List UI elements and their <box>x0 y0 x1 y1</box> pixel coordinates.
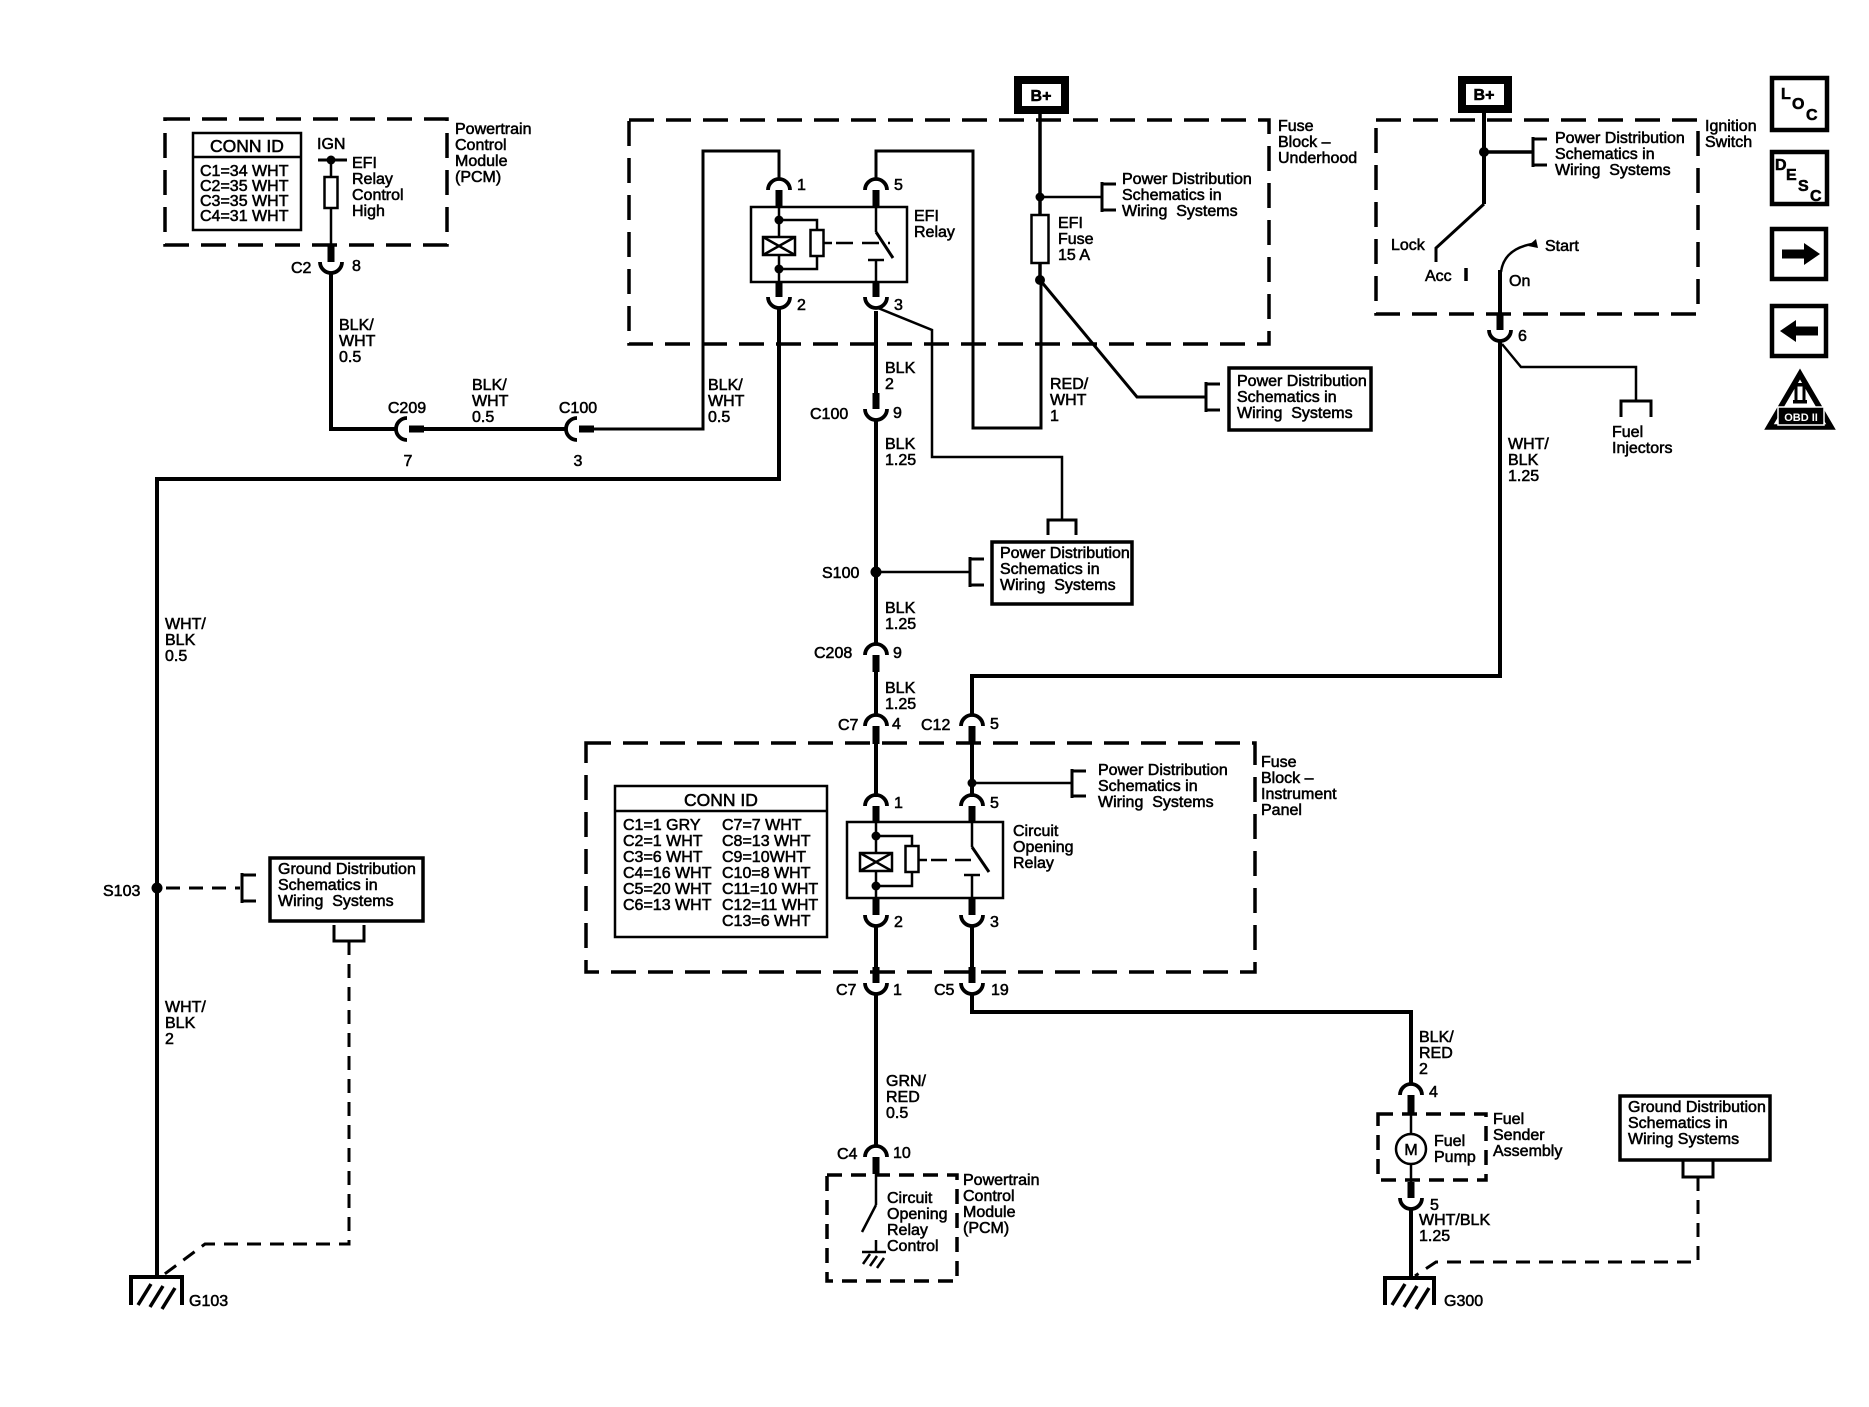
svg-text:RED: RED <box>886 1089 920 1106</box>
svg-text:Schematics in: Schematics in <box>1628 1115 1728 1132</box>
svg-text:WHT/BLK: WHT/BLK <box>1419 1212 1490 1229</box>
wire C2-8 down and right (BLK/WHT 0.5) <box>331 273 396 429</box>
svg-text:Ground Distribution: Ground Distribution <box>278 861 416 878</box>
svg-text:3: 3 <box>894 297 903 314</box>
svg-text:Fuel: Fuel <box>1612 424 1643 441</box>
Circuit Opening Relay box <box>847 822 1003 898</box>
ground G103 <box>129 1277 228 1310</box>
svg-text:C11=10 WHT: C11=10 WHT <box>722 881 818 898</box>
svg-text:Wiring Systems: Wiring Systems <box>1122 203 1238 220</box>
svg-text:1.25: 1.25 <box>1419 1228 1450 1245</box>
svg-text:BLK: BLK <box>885 600 916 617</box>
svg-text:1: 1 <box>894 795 903 812</box>
svg-text:0.5: 0.5 <box>886 1105 908 1122</box>
svg-text:Module: Module <box>455 153 508 170</box>
svg-text:O: O <box>1792 96 1804 113</box>
wire C100-3 up to EFI relay pin 1 <box>594 151 779 429</box>
svg-text:Power Distribution: Power Distribution <box>1098 762 1228 779</box>
svg-text:Power Distribution: Power Distribution <box>1555 130 1685 147</box>
svg-text:C8=13 WHT: C8=13 WHT <box>722 833 811 850</box>
svg-text:Ground Distribution: Ground Distribution <box>1628 1099 1766 1116</box>
svg-text:7: 7 <box>404 453 413 470</box>
svg-text:Wiring Systems: Wiring Systems <box>1628 1131 1739 1148</box>
svg-text:0.5: 0.5 <box>165 648 187 665</box>
svg-text:(PCM): (PCM) <box>455 169 501 186</box>
label Powertrain Control Module (PCM) <box>455 121 531 186</box>
icon arrow right <box>1772 229 1826 279</box>
label BLK 1.25 <box>885 680 916 713</box>
svg-text:Wiring Systems: Wiring Systems <box>1555 162 1671 179</box>
svg-text:RED/: RED/ <box>1050 376 1089 393</box>
wire relay pin 3 to C5-19 <box>970 926 974 967</box>
wire C209 to C100 <box>424 427 566 431</box>
wire pin 3 diagonal to S100 ref box <box>878 308 1076 535</box>
junction at EFI fuse output <box>1035 275 1045 285</box>
bracket below Ground Distribution box (S103) <box>334 925 364 941</box>
svg-text:BLK/: BLK/ <box>339 317 374 334</box>
svg-text:Fuel: Fuel <box>1434 1133 1465 1150</box>
svg-text:Pump: Pump <box>1434 1149 1476 1166</box>
svg-text:EFI: EFI <box>352 155 377 172</box>
svg-text:BLK: BLK <box>1508 452 1539 469</box>
svg-text:C209: C209 <box>388 400 426 417</box>
svg-text:C4=31 WHT: C4=31 WHT <box>200 208 289 225</box>
svg-text:10: 10 <box>893 1145 911 1162</box>
EFI relay pin 3 connector <box>865 281 903 314</box>
EFI relay coil resistor <box>779 220 824 269</box>
PCM dashed box (bottom) <box>827 1175 957 1281</box>
label Lock <box>1391 237 1426 254</box>
svg-text:Opening: Opening <box>887 1206 948 1223</box>
svg-text:C100: C100 <box>810 406 848 423</box>
wire pin 6 down and left to C12-5 (WHT/BLK 1.25) <box>972 341 1500 715</box>
connector fuel sender pin 4 <box>1400 1084 1438 1113</box>
svg-text:Powertrain: Powertrain <box>963 1172 1039 1189</box>
svg-text:5: 5 <box>894 177 903 194</box>
connector C12 pin 5 <box>921 715 999 744</box>
svg-text:CONN ID: CONN ID <box>210 136 284 156</box>
svg-text:WHT/: WHT/ <box>1508 436 1549 453</box>
connector C208 pin 9 <box>814 644 902 672</box>
svg-text:High: High <box>352 203 385 220</box>
svg-text:Lock: Lock <box>1391 237 1426 254</box>
label RED/WHT 1 <box>1050 376 1089 425</box>
dashed ref wire from S103 <box>166 873 256 903</box>
Circuit Opening Relay coil <box>860 822 892 898</box>
svg-text:2: 2 <box>885 376 894 393</box>
connector ignition pin 6 <box>1489 314 1527 345</box>
svg-text:BLK: BLK <box>885 436 916 453</box>
svg-text:Control: Control <box>455 137 507 154</box>
svg-text:Relay: Relay <box>1013 855 1054 872</box>
svg-text:2: 2 <box>165 1031 174 1048</box>
EFI relay pin 1 connector <box>768 177 806 207</box>
svg-text:C7: C7 <box>836 982 857 999</box>
svg-text:C: C <box>1806 107 1818 124</box>
label BLK 1.25 <box>885 436 916 469</box>
svg-text:Assembly: Assembly <box>1493 1143 1562 1160</box>
svg-text:3: 3 <box>990 914 999 931</box>
fuse EFI Fuse 15 A <box>1032 215 1094 280</box>
svg-text:0.5: 0.5 <box>339 349 361 366</box>
svg-text:C7=7 WHT: C7=7 WHT <box>722 817 802 834</box>
svg-text:C5: C5 <box>934 982 955 999</box>
svg-text:Acc: Acc <box>1425 268 1452 285</box>
icon OBD II <box>1769 374 1831 428</box>
svg-text:2: 2 <box>797 297 806 314</box>
off-page ref wire (ignition) <box>1484 137 1547 167</box>
label Powertrain Control Module (PCM) bottom <box>963 1172 1039 1237</box>
wire C5-19 to fuel pump (BLK/RED 2) <box>972 994 1411 1084</box>
connector C7 pin 1 <box>836 967 902 999</box>
svg-text:Schematics in: Schematics in <box>278 877 378 894</box>
label BLK/RED 2 <box>1419 1029 1454 1078</box>
svg-text:Circuit: Circuit <box>887 1190 933 1207</box>
svg-text:WHT/: WHT/ <box>165 999 206 1016</box>
svg-text:EFI: EFI <box>914 208 939 225</box>
svg-text:9: 9 <box>893 405 902 422</box>
connector C2 pin 8 <box>291 246 361 277</box>
label BLK/WHT 0.5 (pin2 wire) <box>708 377 745 426</box>
svg-text:5: 5 <box>990 795 999 812</box>
wire fuel pump to G300 (WHT/BLK 1.25) <box>1409 1209 1413 1277</box>
Fuse Block Instrument Panel dashed box <box>586 743 1255 972</box>
svg-text:8: 8 <box>352 258 361 275</box>
off-page ref wire Power Distribution (above fuse) <box>1040 182 1116 212</box>
connector C5 pin 19 <box>934 967 1009 999</box>
svg-text:Powertrain: Powertrain <box>455 121 531 138</box>
wire On position down to pin 6 <box>1498 270 1502 315</box>
svg-text:Panel: Panel <box>1261 802 1302 819</box>
svg-text:Wiring Systems: Wiring Systems <box>1098 794 1214 811</box>
svg-text:GRN/: GRN/ <box>886 1073 927 1090</box>
EFI relay pin 5 connector <box>865 177 903 207</box>
svg-text:1.25: 1.25 <box>885 616 916 633</box>
wire C7-4 to relay pin 1 <box>874 744 878 797</box>
svg-text:Relay: Relay <box>887 1222 928 1239</box>
Ignition Switch dashed box <box>1376 120 1698 314</box>
svg-text:C2: C2 <box>291 260 312 277</box>
svg-text:2: 2 <box>894 914 903 931</box>
label Power Distribution Schematics in Wiring Systems (underhood) <box>1122 171 1252 220</box>
svg-text:IGN: IGN <box>317 136 345 153</box>
label WHT/BLK 1.25 <box>1419 1212 1490 1245</box>
svg-text:Wiring Systems: Wiring Systems <box>1000 577 1116 594</box>
svg-text:C100: C100 <box>559 400 597 417</box>
svg-text:Switch: Switch <box>1705 134 1752 151</box>
connector C209 pin 7 <box>388 400 426 470</box>
svg-text:Sender: Sender <box>1493 1127 1545 1144</box>
svg-text:3: 3 <box>574 453 583 470</box>
svg-text:G300: G300 <box>1444 1293 1483 1310</box>
svg-text:Underhood: Underhood <box>1278 150 1357 167</box>
connector C7 pin 4 <box>838 715 901 744</box>
svg-text:Schematics in: Schematics in <box>1237 389 1337 406</box>
wire relay pin 2 to C7-1 <box>874 926 878 967</box>
label Circuit Opening Relay Control <box>887 1190 948 1255</box>
svg-text:WHT: WHT <box>472 393 509 410</box>
label Start <box>1545 238 1579 255</box>
label BLK/WHT 0.5 (C209-C100) <box>472 377 509 426</box>
svg-text:Schematics in: Schematics in <box>1000 561 1100 578</box>
boxed ref Power Distribution Schematics in Wiring Systems (right of fuse) <box>1229 368 1371 430</box>
svg-text:15 A: 15 A <box>1058 247 1090 264</box>
svg-text:BLK/: BLK/ <box>1419 1029 1454 1046</box>
svg-text:Wiring Systems: Wiring Systems <box>1237 405 1353 422</box>
svg-text:WHT/: WHT/ <box>165 616 206 633</box>
svg-text:WHT: WHT <box>339 333 376 350</box>
svg-text:C208: C208 <box>814 645 852 662</box>
svg-text:BLK: BLK <box>165 632 196 649</box>
label On <box>1509 273 1530 290</box>
icon DESC <box>1772 152 1827 205</box>
svg-text:C13=6 WHT: C13=6 WHT <box>722 913 811 930</box>
boxed ref Power Distribution Schematics in Wiring Systems (S100) <box>992 542 1132 604</box>
label Fuel Pump <box>1434 1133 1476 1166</box>
Circuit Opening Relay pin 5 connector <box>961 795 999 822</box>
svg-text:Schematics in: Schematics in <box>1122 187 1222 204</box>
EFI relay box <box>751 207 907 282</box>
Circuit Opening Relay switch <box>964 822 989 898</box>
EFI relay switch <box>868 207 893 282</box>
svg-text:RED: RED <box>1419 1045 1453 1062</box>
svg-text:C10=8 WHT: C10=8 WHT <box>722 865 811 882</box>
svg-text:BLK: BLK <box>165 1015 196 1032</box>
connector C4 pin 10 <box>837 1145 911 1174</box>
label Fuse Block - Instrument Panel <box>1261 754 1337 819</box>
Fuel Sender Assembly dashed box <box>1378 1114 1486 1180</box>
svg-text:Circuit: Circuit <box>1013 823 1059 840</box>
svg-text:WHT: WHT <box>708 393 745 410</box>
label GRN/RED 0.5 <box>886 1073 927 1122</box>
svg-text:Schematics in: Schematics in <box>1098 778 1198 795</box>
svg-text:Module: Module <box>963 1204 1016 1221</box>
motor M fuel pump <box>1396 1113 1426 1182</box>
EFI relay coil <box>763 207 795 282</box>
ignition switch wiper to Lock <box>1436 152 1484 262</box>
svg-text:D: D <box>1775 157 1787 174</box>
svg-text:C4=16 WHT: C4=16 WHT <box>623 865 712 882</box>
svg-text:C: C <box>1810 188 1822 205</box>
svg-text:C3=6 WHT: C3=6 WHT <box>623 849 703 866</box>
svg-text:4: 4 <box>892 716 901 733</box>
svg-text:1: 1 <box>797 177 806 194</box>
label BLK/WHT 0.5 (C2 wire) <box>339 317 376 366</box>
svg-text:0.5: 0.5 <box>708 409 730 426</box>
wire B+ to EFI fuse <box>1038 114 1042 215</box>
splice S103 <box>103 883 163 901</box>
Circuit Opening Relay actuation dashed link <box>919 859 973 862</box>
svg-text:C4: C4 <box>837 1146 858 1163</box>
svg-text:L: L <box>1781 86 1791 103</box>
label Ignition Switch <box>1705 118 1757 151</box>
switch Circuit Opening Relay Control driver <box>862 1174 876 1232</box>
svg-text:S: S <box>1798 178 1809 195</box>
Circuit Opening Relay pin 3 connector <box>961 899 999 931</box>
svg-text:C1=1 GRY: C1=1 GRY <box>623 817 701 834</box>
boxed ref Ground Distribution Schematics in Wiring Systems (right) <box>1620 1096 1770 1160</box>
svg-text:G103: G103 <box>189 1293 228 1310</box>
icon arrow left <box>1772 306 1826 356</box>
label Power Distribution Schematics in Wiring Systems (ignition) <box>1555 130 1685 179</box>
svg-text:Relay: Relay <box>352 171 393 188</box>
svg-text:9: 9 <box>893 645 902 662</box>
wire C7-1 down to C4 (GRN/RED 0.5) <box>874 994 878 1147</box>
bracket below Ground Distribution box (right) <box>1683 1161 1713 1177</box>
svg-text:(PCM): (PCM) <box>963 1220 1009 1237</box>
wire C208 to C7-4 (BLK 1.25) <box>874 672 878 715</box>
label Fuel Sender Assembly <box>1493 1111 1562 1160</box>
label Power Distribution Schematics in Wiring Systems (instrument panel) <box>1098 762 1228 811</box>
wire EFI relay pin 5 to fuse output <box>876 151 1041 428</box>
svg-text:Fuse: Fuse <box>1058 231 1094 248</box>
svg-text:Injectors: Injectors <box>1612 440 1672 457</box>
connector C100 pin 3 <box>559 400 597 470</box>
node IGN terminal <box>317 136 347 165</box>
svg-text:S103: S103 <box>103 883 140 900</box>
label EFI Relay <box>914 208 955 241</box>
svg-text:Wiring Systems: Wiring Systems <box>278 893 394 910</box>
svg-text:Instrument: Instrument <box>1261 786 1337 803</box>
svg-text:B+: B+ <box>1474 87 1495 104</box>
CONN ID table (PCM) <box>193 133 301 230</box>
EFI relay actuation dashed link <box>824 242 891 245</box>
wire C12-5 to relay pin 5 <box>970 744 974 797</box>
icon LOC <box>1772 78 1827 130</box>
svg-text:C9=10WHT: C9=10WHT <box>722 849 806 866</box>
svg-text:Power Distribution: Power Distribution <box>1237 373 1367 390</box>
svg-text:Control: Control <box>887 1238 939 1255</box>
svg-text:BLK: BLK <box>885 360 916 377</box>
svg-text:BLK/: BLK/ <box>472 377 507 394</box>
svg-text:Power Distribution: Power Distribution <box>1122 171 1252 188</box>
PCM module dashed box (top left) <box>165 119 447 245</box>
ground (inside PCM) <box>862 1240 886 1268</box>
svg-text:E: E <box>1786 167 1797 184</box>
svg-text:CONN ID: CONN ID <box>684 790 758 810</box>
wire EFI relay pin 3 trunk down (BLK 2) <box>874 311 878 393</box>
svg-text:Fuse: Fuse <box>1278 118 1314 135</box>
svg-text:On: On <box>1509 273 1530 290</box>
Start position arc <box>1501 239 1538 272</box>
svg-text:6: 6 <box>1518 328 1527 345</box>
svg-text:Control: Control <box>352 187 404 204</box>
svg-text:Block –: Block – <box>1278 134 1331 151</box>
Circuit Opening Relay pin 2 connector <box>865 899 903 931</box>
off-page ref wire (instrument panel) <box>972 769 1086 798</box>
svg-text:C12: C12 <box>921 717 950 734</box>
label Fuel Injectors <box>1612 424 1672 457</box>
label WHT/BLK 0.5 (left wire) <box>165 616 206 665</box>
dashed ground ref wire to G300 <box>1415 1177 1698 1276</box>
svg-text:BLK: BLK <box>885 680 916 697</box>
label EFI Relay Control High <box>352 155 404 220</box>
svg-text:S100: S100 <box>822 565 859 582</box>
svg-text:1.25: 1.25 <box>1508 468 1539 485</box>
B+ terminal (underhood) <box>1014 76 1069 114</box>
svg-text:1: 1 <box>893 982 902 999</box>
ground G300 <box>1383 1278 1483 1310</box>
connector fuel sender pin 5 <box>1400 1182 1439 1214</box>
svg-text:EFI: EFI <box>1058 215 1083 232</box>
svg-text:Power Distribution: Power Distribution <box>1000 545 1130 562</box>
splice S100 <box>822 565 882 582</box>
Circuit Opening Relay coil resistor <box>876 836 919 886</box>
svg-text:Opening: Opening <box>1013 839 1074 856</box>
junction in ignition switch <box>1479 147 1489 157</box>
svg-text:4: 4 <box>1429 1084 1438 1101</box>
svg-text:Block –: Block – <box>1261 770 1314 787</box>
wire C100-9 to S100 (BLK 1.25) <box>874 420 878 572</box>
svg-text:C2=1 WHT: C2=1 WHT <box>623 833 703 850</box>
Acc contact tick <box>1464 268 1468 281</box>
svg-text:0.5: 0.5 <box>472 409 494 426</box>
wire branch to fuel injectors <box>1502 344 1651 417</box>
svg-text:C5=20 WHT: C5=20 WHT <box>623 881 712 898</box>
svg-text:2: 2 <box>1419 1061 1428 1078</box>
svg-text:19: 19 <box>991 982 1009 999</box>
wire S100 to C208 (BLK 1.25) <box>874 572 878 644</box>
svg-text:WHT: WHT <box>1050 392 1087 409</box>
svg-text:C12=11 WHT: C12=11 WHT <box>722 897 818 914</box>
Circuit Opening Relay pin 1 connector <box>865 795 903 822</box>
label WHT/BLK 1.25 (ignition feed) <box>1508 436 1549 485</box>
label WHT/BLK 2 (left wire) <box>165 999 206 1048</box>
wire EFI relay pin 2 down-left to S103 trunk (BLK/WHT 0.5 / WHT/BLK) <box>157 309 779 1277</box>
connector C100 pin 9 <box>810 393 902 423</box>
svg-text:M: M <box>1404 1142 1417 1159</box>
wire B+ into ignition switch <box>1482 113 1486 152</box>
junction above EFI fuse <box>1036 193 1045 202</box>
label BLK 2 <box>885 360 916 393</box>
svg-text:Fuse: Fuse <box>1261 754 1297 771</box>
label Circuit Opening Relay <box>1013 823 1074 872</box>
svg-text:Schematics in: Schematics in <box>1555 146 1655 163</box>
off-page ref diagonal to boxed Power Distribution (RED/WHT feed) <box>1040 280 1220 412</box>
label Fuse Block - Underhood <box>1278 118 1357 167</box>
junction on C12 wire <box>968 779 977 788</box>
svg-text:1: 1 <box>1050 408 1059 425</box>
svg-text:1.25: 1.25 <box>885 452 916 469</box>
boxed ref Ground Distribution Schematics in Wiring Systems (S103) <box>270 858 423 921</box>
svg-text:Control: Control <box>963 1188 1015 1205</box>
CONN ID table (Instrument Panel) <box>615 786 827 937</box>
resistor EFI Relay Control High driver <box>325 160 338 246</box>
label Acc <box>1425 268 1452 285</box>
svg-text:BLK/: BLK/ <box>708 377 743 394</box>
svg-text:1.25: 1.25 <box>885 696 916 713</box>
svg-text:OBD II: OBD II <box>1784 412 1818 424</box>
label BLK 1.25 <box>885 600 916 633</box>
svg-text:B+: B+ <box>1031 88 1052 105</box>
Fuse Block Underhood dashed box <box>629 120 1269 344</box>
svg-text:Start: Start <box>1545 238 1579 255</box>
svg-text:Fuel: Fuel <box>1493 1111 1524 1128</box>
EFI relay pin 2 connector <box>768 281 806 314</box>
svg-text:5: 5 <box>990 716 999 733</box>
dashed ground ref wire to G103 <box>162 941 349 1276</box>
svg-text:Ignition: Ignition <box>1705 118 1757 135</box>
B+ terminal (ignition) <box>1458 76 1512 113</box>
svg-text:C6=13 WHT: C6=13 WHT <box>623 897 712 914</box>
svg-text:C7: C7 <box>838 717 859 734</box>
off-page ref wire from S100 <box>876 557 984 587</box>
svg-text:Relay: Relay <box>914 224 955 241</box>
